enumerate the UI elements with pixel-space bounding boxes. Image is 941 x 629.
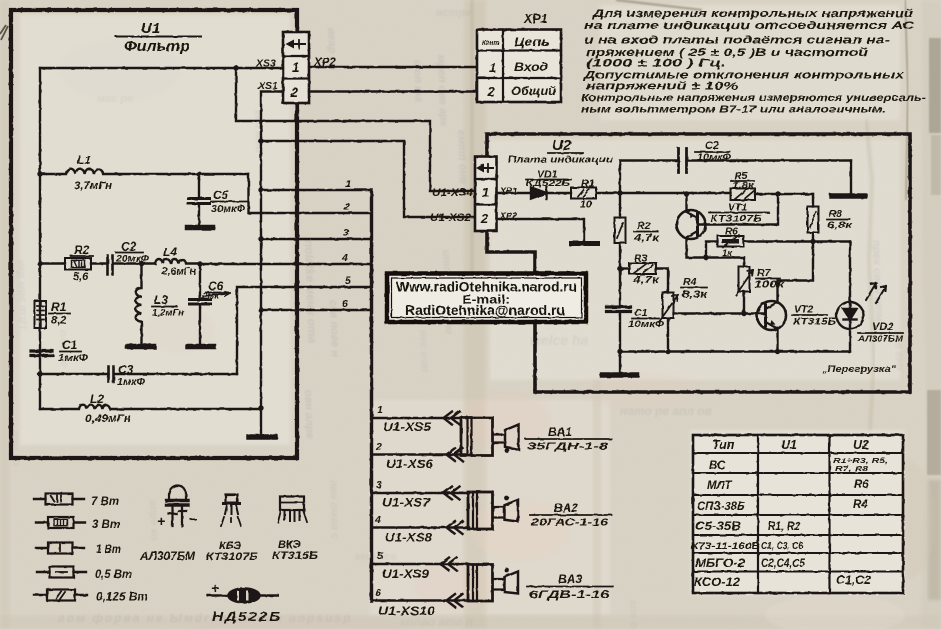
resistor R3 xyxy=(620,267,629,269)
svg-text:АЛ307БМ: АЛ307БМ xyxy=(139,551,195,563)
svg-text:R1, R2: R1, R2 xyxy=(768,521,801,533)
svg-text:2: 2 xyxy=(375,441,382,453)
svg-text:−: − xyxy=(189,511,197,527)
legend resistor 3W xyxy=(36,521,85,523)
svg-text:екр мос тปา: екр мос тปา xyxy=(15,260,29,330)
svg-text:6: 6 xyxy=(375,587,381,599)
svg-text:BA3: BA3 xyxy=(558,572,582,586)
svg-text:Плата индикации: Плата индикации xyxy=(508,155,613,166)
wire XS3 input inside U1 xyxy=(40,67,283,69)
svg-text:0,49мГн: 0,49мГн xyxy=(85,413,131,425)
speaker stub 4 xyxy=(373,526,470,528)
svg-text:C1: C1 xyxy=(62,338,78,352)
svg-text:„Перегрузка": „Перегрузка" xyxy=(821,364,897,375)
svg-text:+: + xyxy=(211,580,219,596)
svg-text:(1000 ± 100 ) Гц.: (1000 ± 100 ) Гц. xyxy=(586,58,726,70)
inductor L3 vertical xyxy=(136,264,142,345)
svg-text:7 Вт: 7 Вт xyxy=(91,494,119,508)
labels XS3 XS1 XP2 xyxy=(255,57,336,92)
inductor L2 xyxy=(40,405,261,409)
svg-text:0,125 Вт: 0,125 Вт xyxy=(96,590,148,604)
wire XP2.2 to XP1 table xyxy=(309,90,477,92)
svg-text:кмо асе: кмо асе xyxy=(355,551,397,563)
node VT1 emitter xyxy=(684,191,689,196)
svg-text:4,7к: 4,7к xyxy=(633,233,661,244)
legend LED AL307BM xyxy=(167,486,189,526)
svg-text:U1-XS4: U1-XS4 xyxy=(432,187,473,199)
svg-text:Контрольные напряжения измеряю: Контрольные напряжения измеряются универ… xyxy=(581,93,927,104)
svg-text:6: 6 xyxy=(342,298,348,310)
svg-text:встре: встре xyxy=(436,7,471,19)
speaker stub 6 xyxy=(373,599,470,601)
svg-text:R7, R8: R7, R8 xyxy=(835,464,869,473)
svg-text:5,6: 5,6 xyxy=(73,271,89,283)
svg-text:овн алре: овн алре xyxy=(302,390,316,439)
svg-text:R2: R2 xyxy=(74,243,90,257)
capacitor C2 xyxy=(108,256,113,275)
ground bottom xyxy=(619,352,621,373)
svg-text:Цепь: Цепь xyxy=(514,35,550,49)
svg-text:6,8к: 6,8к xyxy=(827,220,854,231)
wire 6 from common xyxy=(258,307,263,312)
wire from XS3 node down-left vertical xyxy=(39,68,41,409)
speaker stub 3 xyxy=(373,492,470,494)
svg-text:4: 4 xyxy=(341,252,348,264)
node R7 bottom / VT2 base xyxy=(741,311,746,316)
svg-text:10мкФ: 10мкФ xyxy=(628,319,664,329)
labels speaker stub pins and sockets U1-XS5..XS10 xyxy=(374,404,435,618)
capacitor C1 (U2) xyxy=(619,269,621,306)
svg-text:2: 2 xyxy=(480,211,489,226)
connector XP2 on U1 edge xyxy=(283,32,309,103)
svg-text:НД522Б: НД522Б xyxy=(212,609,282,624)
resistor R5 xyxy=(731,189,756,201)
node VT1 base riser xyxy=(775,191,780,196)
resistor R2 (U2) xyxy=(619,193,621,218)
svg-text:C5: C5 xyxy=(213,188,229,202)
svg-text:R4: R4 xyxy=(853,499,868,511)
svg-text:U1-XS7: U1-XS7 xyxy=(382,498,431,510)
label BA1 35ГДН-1-8 xyxy=(527,425,608,453)
svg-text:апк ов: апк ов xyxy=(627,600,640,629)
legend transistor KT315B xyxy=(278,497,307,523)
node on common xyxy=(258,138,263,143)
resistor R1 xyxy=(35,301,47,328)
svg-text:35ГДН-1-8: 35ГДН-1-8 xyxy=(527,441,608,453)
svg-text:R1: R1 xyxy=(581,178,595,190)
pin labels 1 2 of XP2 xyxy=(290,60,300,100)
node L1 branch xyxy=(37,171,42,176)
svg-text:2,6мГн: 2,6мГн xyxy=(161,266,197,278)
labels bundle wire numbers 1-6 xyxy=(341,178,351,310)
svg-text:1мкФ: 1мкФ xyxy=(117,377,145,388)
diode VD1 xyxy=(531,188,547,199)
bottom rail U2 xyxy=(620,350,850,352)
node on XS3 wire xyxy=(233,65,238,70)
svg-text:3 Вт: 3 Вт xyxy=(92,517,120,531)
loudspeaker BA1 xyxy=(461,418,519,456)
legend diode ND522B xyxy=(208,589,278,603)
node L2 right on common xyxy=(258,405,263,410)
svg-text:1 Вт: 1 Вт xyxy=(96,542,121,556)
loudspeaker BA3 xyxy=(468,565,518,602)
node BA2 polarity dot xyxy=(504,496,509,501)
svg-text:4: 4 xyxy=(374,514,381,526)
svg-text:XP1: XP1 xyxy=(499,186,517,196)
svg-text:R6: R6 xyxy=(854,479,869,491)
svg-text:3: 3 xyxy=(376,479,382,491)
XP1 table texts xyxy=(482,12,557,99)
svg-text:АЛ307БМ: АЛ307БМ xyxy=(857,334,904,344)
resistor R1 (U2) xyxy=(571,188,596,199)
svg-text:2: 2 xyxy=(290,85,299,100)
svg-text:10мкФ: 10мкФ xyxy=(697,152,732,163)
svg-text:0,5 Вт: 0,5 Вт xyxy=(95,567,132,581)
svg-text:U1-XS8: U1-XS8 xyxy=(385,533,433,545)
node BA1 polarity dot xyxy=(505,448,510,453)
node VT1 collector junction xyxy=(703,255,708,260)
labels U1-XS4 U1-XS2 XP1 XP2 xyxy=(430,186,517,224)
resistor R8 xyxy=(812,194,814,207)
notes text block xyxy=(581,8,927,116)
rail nodes xyxy=(617,349,622,354)
svg-text:+: + xyxy=(157,513,165,529)
svg-text:1к: 1к xyxy=(722,248,733,259)
legend resistor 1W xyxy=(36,547,84,549)
svg-text:1: 1 xyxy=(377,404,383,416)
svg-text:КТ315Б: КТ315Б xyxy=(793,317,836,328)
svg-text:1: 1 xyxy=(292,60,300,75)
transistor VT1 xyxy=(677,210,706,239)
svg-text:2: 2 xyxy=(487,84,496,99)
label U1 / Фильтр xyxy=(124,20,190,55)
svg-text:КТ3107Б: КТ3107Б xyxy=(206,551,258,563)
svg-text:C3: C3 xyxy=(118,363,134,377)
svg-text:VD2: VD2 xyxy=(872,321,893,333)
svg-text:С1,С2: С1,С2 xyxy=(836,575,872,587)
wire 3 from common xyxy=(258,236,263,241)
svg-text:XS1: XS1 xyxy=(257,80,278,92)
wire 2 from L1 node xyxy=(249,174,372,213)
XP1 table xyxy=(477,30,561,103)
resistor R6 xyxy=(706,242,718,258)
svg-text:С2,С4,С5: С2,С4,С5 xyxy=(761,558,806,570)
svg-text:5: 5 xyxy=(345,275,351,287)
connector XP on U2 xyxy=(475,157,497,232)
svg-text:нес оવп: нес оવп xyxy=(417,330,430,373)
legend resistor 7W xyxy=(34,498,84,500)
svg-text:МЛТ: МЛТ xyxy=(707,480,732,492)
svg-text:U2: U2 xyxy=(552,137,572,154)
svg-text:К73-11-160В: К73-11-160В xyxy=(691,541,760,552)
svg-text:1: 1 xyxy=(482,185,489,200)
svg-text:U1: U1 xyxy=(781,438,797,452)
svg-text:ВС: ВС xyxy=(709,460,726,472)
svg-text:КТ3107Б: КТ3107Б xyxy=(710,214,762,225)
ground top right xyxy=(850,161,852,194)
svg-text:U1-XS5: U1-XS5 xyxy=(383,422,432,434)
speaker stub 2 xyxy=(373,453,466,455)
svg-text:1: 1 xyxy=(345,178,351,190)
svg-text:C2: C2 xyxy=(121,240,137,254)
svg-text:R1: R1 xyxy=(51,300,67,314)
svg-text:R4: R4 xyxy=(683,276,697,288)
capacitor C6 xyxy=(199,264,201,299)
svg-text:С1, С3, С6: С1, С3, С6 xyxy=(761,541,803,552)
svg-text:емтп онв: емтп онв xyxy=(455,130,469,185)
speaker stub 1 xyxy=(373,417,466,419)
svg-text:Конт: Конт xyxy=(482,40,499,47)
svg-text:скв пове н: скв пове н xyxy=(327,300,341,358)
resistor R4 trimmer xyxy=(663,293,674,319)
svg-text:1: 1 xyxy=(489,60,496,75)
svg-text:2: 2 xyxy=(343,201,350,213)
svg-text:20мкФ: 20мкФ xyxy=(115,254,150,265)
svg-text:8,2: 8,2 xyxy=(51,315,66,327)
label BA3 6ГДВ-1-16 xyxy=(529,572,610,601)
node R3 left xyxy=(617,266,622,271)
svg-text:на плате индикации отсоединяет: на плате индикации отсоединяется АС xyxy=(584,20,916,32)
bundle line xyxy=(370,190,373,601)
svg-text:Вход: Вход xyxy=(514,60,548,74)
svg-text:екп мов: екп мов xyxy=(252,110,266,154)
svg-text:U2: U2 xyxy=(853,438,869,452)
svg-text:напряжений ± 10%: напряжений ± 10% xyxy=(586,81,738,93)
wire XS1 common from XP2.2 xyxy=(261,92,283,438)
wire 4 from L4 node xyxy=(200,263,371,265)
wire XP2.1 to XP1 table xyxy=(309,66,477,68)
svg-text:КТ315Б: КТ315Б xyxy=(272,550,318,562)
resistor R7 trimmer xyxy=(743,258,745,267)
svg-text:BA2: BA2 xyxy=(554,501,578,515)
legend resistor 0.125W xyxy=(34,594,87,596)
svg-text:Фильтр: Фильтр xyxy=(124,38,190,55)
svg-text:5: 5 xyxy=(377,550,383,562)
wire pin1 to VD1 xyxy=(497,192,532,194)
U1 filter box xyxy=(11,10,297,458)
label U2 / Плата индикации xyxy=(508,137,613,166)
svg-text:R2: R2 xyxy=(637,220,651,232)
capacitor C1 xyxy=(31,351,53,356)
node C5 xyxy=(196,171,201,176)
label BA2 20ГАС-1-16 xyxy=(530,501,609,529)
svg-text:welce ha: welce ha xyxy=(530,332,589,348)
resistor R2 xyxy=(40,262,65,264)
svg-text:R3: R3 xyxy=(634,253,648,265)
loudspeaker BA2 xyxy=(468,492,518,529)
main wire node A to R5 xyxy=(620,193,813,194)
label Перегрузка xyxy=(821,364,897,375)
svg-text:RadiOtehnika@narod.ru: RadiOtehnika@narod.ru xyxy=(405,303,565,318)
svg-text:Тип: Тип xyxy=(712,438,735,452)
ground bar C6 xyxy=(188,344,214,350)
wire XS3 branch to U2 (U1-XS4) xyxy=(236,68,475,191)
svg-text:L1: L1 xyxy=(77,153,91,167)
svg-text:R8: R8 xyxy=(829,209,842,220)
capacitor C3 on wire xyxy=(40,373,237,375)
svg-text:3,7мГн: 3,7мГн xyxy=(74,180,112,192)
svg-text:1,2мГн: 1,2мГн xyxy=(152,308,184,319)
svg-text:ным вольтметром В7-17 или анал: ным вольтметром В7-17 или аналогичным. xyxy=(581,105,886,116)
svg-text:XP1: XP1 xyxy=(523,12,548,26)
svg-text:3: 3 xyxy=(343,227,349,239)
wire 5 via C3 xyxy=(237,287,371,374)
ground bar C5 xyxy=(188,225,213,231)
ground bar L3 xyxy=(128,344,154,350)
svg-text:U1-XS9: U1-XS9 xyxy=(382,569,430,581)
svg-text:U1: U1 xyxy=(141,20,160,37)
svg-text:30мкФ: 30мкФ xyxy=(211,204,245,215)
svg-text:U1-XS6: U1-XS6 xyxy=(386,459,434,471)
wire 1 from common xyxy=(258,187,263,192)
svg-text:20ГАС-1-16: 20ГАС-1-16 xyxy=(530,517,609,529)
svg-text:U1-XS10: U1-XS10 xyxy=(378,604,435,618)
wire VT2 collector xyxy=(778,242,814,303)
svg-text:U1-XS2: U1-XS2 xyxy=(430,212,471,224)
svg-text:Общий: Общий xyxy=(511,84,557,98)
legend resistor 0.5W xyxy=(37,571,86,573)
svg-text:VT2: VT2 xyxy=(794,304,813,316)
node A after R1 xyxy=(617,190,622,195)
svg-text:L4: L4 xyxy=(163,245,177,259)
svg-text:МБГО-2: МБГО-2 xyxy=(695,558,746,570)
wire L1 node to corner xyxy=(199,173,249,175)
speaker stub 5 xyxy=(373,563,470,565)
svg-text:10: 10 xyxy=(580,199,592,211)
svg-text:С5-35В: С5-35В xyxy=(695,521,741,533)
node R2 branch xyxy=(37,261,42,266)
svg-text:4,7к: 4,7к xyxy=(632,275,661,286)
node BA3 polarity dot xyxy=(504,568,509,573)
node L4 right xyxy=(197,261,202,266)
svg-text:КСО-12: КСО-12 xyxy=(694,577,741,589)
inductor L4 xyxy=(155,259,200,264)
ground bar common xyxy=(249,434,275,440)
svg-text:R7: R7 xyxy=(757,267,772,279)
svg-text:1мкФ: 1мкФ xyxy=(58,353,88,364)
legend transistor KT3107B xyxy=(221,495,241,527)
svg-text:СПЗ-38Б: СПЗ-38Б xyxy=(697,501,745,513)
svg-text:C2: C2 xyxy=(705,140,719,152)
wire pin2 to ground xyxy=(497,219,585,241)
svg-text:C1: C1 xyxy=(634,307,648,319)
LED VD2 xyxy=(849,242,851,302)
svg-text:8,3к: 8,3к xyxy=(682,290,708,301)
node C3 left xyxy=(37,371,42,376)
svg-text:и на вход платы подаётся сигна: и на вход платы подаётся сигнал на- xyxy=(584,35,890,47)
svg-text:лен омва с: лен омва с xyxy=(327,479,341,540)
transistor VT2 xyxy=(757,301,786,330)
U2 box outline xyxy=(487,134,910,392)
node L3 top xyxy=(139,261,144,266)
capacitor C5 xyxy=(198,174,200,198)
svg-text:R6: R6 xyxy=(725,227,738,238)
svg-text:6ГДВ-1-16: 6ГДВ-1-16 xyxy=(529,589,610,601)
svg-text:L3: L3 xyxy=(154,293,168,307)
wire common branch to U2 (U1-XS2) xyxy=(261,141,475,217)
svg-text:BA1: BA1 xyxy=(548,425,572,439)
node R8 bottom xyxy=(810,239,815,244)
svg-text:L2: L2 xyxy=(90,392,104,406)
capacitor C2 (U2) xyxy=(679,149,687,173)
svg-text:Для измерения контрольных напр: Для измерения контрольных напряжений xyxy=(592,8,914,20)
wire node A up to C2 rail xyxy=(620,161,678,194)
inductor L1 xyxy=(40,169,199,174)
